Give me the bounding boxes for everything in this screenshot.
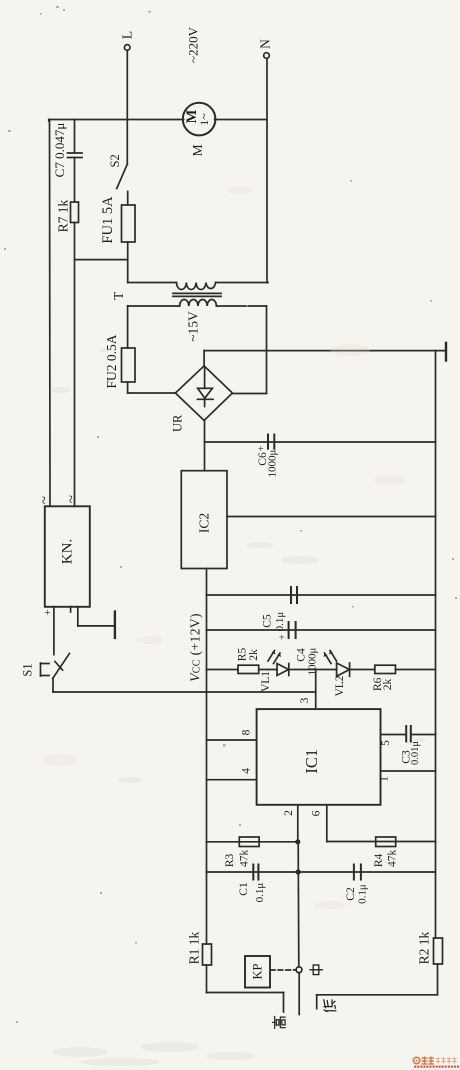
resistor R4	[376, 837, 396, 847]
svg-text:~: ~	[37, 496, 53, 504]
wire VL2 to R6	[350, 669, 375, 671]
motor M1	[183, 103, 216, 136]
capacitor C3 labels	[401, 741, 421, 765]
svg-text:FU2 0.5A: FU2 0.5A	[104, 334, 119, 388]
wire C6 line	[205, 441, 436, 443]
svg-text:47k: 47k	[387, 850, 399, 868]
svg-text:R4: R4	[373, 853, 385, 867]
fuse FU1	[122, 205, 136, 242]
wire pin3 vertical	[315, 670, 317, 710]
svg-text:+: +	[44, 607, 50, 619]
svg-text:KP: KP	[251, 963, 265, 979]
wire S1 to pin3	[53, 691, 316, 693]
wire C1 C2 line	[207, 871, 436, 873]
resistor R7	[71, 202, 79, 223]
capacitor C4	[289, 622, 296, 638]
label middle	[310, 965, 322, 975]
wire node P horizontal	[75, 259, 128, 261]
transformer T core	[173, 293, 221, 296]
svg-text:C2: C2	[345, 887, 357, 901]
wire FU1 to primary	[127, 242, 129, 283]
svg-text:~15V: ~15V	[186, 311, 201, 342]
wiper terminal circle	[296, 967, 302, 973]
capacitor C2	[354, 865, 361, 880]
svg-text:L: L	[120, 31, 135, 39]
wire R6 to rail	[396, 669, 436, 671]
LED VL2	[324, 651, 350, 677]
svg-text:IC1: IC1	[302, 749, 321, 774]
svg-text:M: M	[190, 144, 205, 156]
svg-text:FU1 5A: FU1 5A	[100, 196, 116, 244]
wire secondary left	[127, 306, 129, 348]
capacitor C7	[68, 120, 83, 203]
svg-text:1000μ: 1000μ	[267, 449, 279, 477]
svg-text:+: +	[278, 634, 289, 640]
wire C4 line	[207, 629, 436, 631]
wire LED line	[207, 669, 239, 671]
svg-text:C5: C5	[262, 614, 274, 628]
svg-text:2: 2	[283, 810, 295, 816]
svg-text:2k: 2k	[248, 649, 260, 661]
svg-text:0.1μ: 0.1μ	[274, 612, 286, 632]
capacitor C1	[253, 865, 258, 880]
wire VL1 to junction	[289, 669, 337, 671]
wire C5 line	[207, 594, 436, 596]
wire ground rail	[435, 351, 437, 938]
capacitor C5 labels	[262, 612, 287, 632]
svg-text:R5: R5	[236, 648, 248, 662]
svg-text:VL2: VL2	[334, 675, 346, 696]
svg-text:C1: C1	[238, 882, 250, 896]
svg-text:5: 5	[380, 740, 392, 746]
ground	[114, 612, 116, 638]
svg-text:S2: S2	[108, 154, 122, 167]
svg-text:47k: 47k	[238, 850, 250, 868]
label low	[324, 1000, 336, 1012]
svg-text:C7 0.047μ: C7 0.047μ	[52, 123, 67, 178]
svg-text:2k: 2k	[382, 679, 394, 691]
wire R7 to KN	[74, 223, 76, 507]
svg-text:3: 3	[299, 697, 311, 703]
wire R1 to high contact	[207, 965, 284, 1012]
pin 1	[379, 771, 436, 782]
wire R4 line	[327, 841, 436, 843]
resistor R4 labels	[373, 850, 399, 868]
svg-text:0.01μ: 0.01μ	[410, 741, 421, 765]
wire secondary right to bridge	[232, 306, 266, 394]
KN minus label	[70, 607, 72, 613]
terminal L	[124, 45, 130, 165]
svg-text:VCC (+12V): VCC (+12V)	[187, 613, 202, 682]
wire main line right	[215, 119, 267, 121]
capacitor C5	[291, 587, 297, 603]
wire FU2 to bridge	[128, 382, 176, 393]
watermark logo	[413, 1057, 459, 1068]
wire R5 to VL1	[259, 669, 277, 671]
resistor R2	[434, 938, 443, 964]
junction C1 node	[296, 869, 301, 874]
dashed link KP to wiper	[271, 969, 296, 971]
transformer T secondary	[128, 300, 267, 307]
ground bar terminal	[445, 343, 447, 361]
pin 8	[207, 729, 257, 740]
svg-text:1~: 1~	[197, 113, 211, 126]
resistor R5	[238, 665, 259, 673]
pin 4	[207, 768, 257, 780]
resistor R3	[239, 837, 259, 847]
capacitor C4 labels	[278, 634, 319, 675]
wire bridge bottom to IC2	[204, 421, 206, 471]
switch S1	[41, 653, 70, 692]
wire left rail	[48, 120, 50, 122]
pin 6	[311, 805, 327, 842]
wiper arm	[298, 973, 300, 1015]
svg-text:VL1: VL1	[260, 671, 272, 692]
resistor R6	[375, 665, 396, 673]
svg-text:0.1μ: 0.1μ	[254, 883, 266, 903]
contact low	[317, 964, 438, 1009]
timer IC1	[257, 709, 381, 805]
resistor R1	[203, 944, 212, 965]
transformer T primary	[128, 283, 268, 290]
wire pin2 to wiper	[297, 842, 300, 967]
wire main line left	[49, 119, 184, 121]
svg-text:UR: UR	[170, 414, 184, 432]
wire R3 line	[207, 841, 298, 843]
fuse FU2	[122, 348, 136, 382]
resistor R5 labels	[236, 648, 259, 662]
svg-text:6: 6	[311, 810, 323, 816]
label high	[273, 1017, 285, 1029]
svg-text:S1: S1	[21, 663, 35, 676]
svg-text:4: 4	[240, 768, 252, 774]
svg-text:T: T	[111, 291, 126, 300]
resistor R6 labels	[372, 677, 394, 691]
pin 2	[283, 805, 298, 842]
svg-text:1: 1	[379, 776, 391, 782]
wire KN plus to S1	[53, 607, 55, 655]
svg-text:R7 1k: R7 1k	[56, 199, 71, 232]
svg-text:~220V: ~220V	[186, 26, 201, 63]
svg-text:1000μ: 1000μ	[307, 647, 319, 675]
svg-text:IC2: IC2	[197, 513, 212, 533]
junction pin2 node	[295, 839, 300, 844]
svg-text:8: 8	[240, 729, 252, 735]
capacitor C6 labels	[257, 445, 279, 477]
svg-text:R1 1k: R1 1k	[187, 931, 202, 964]
wire bridge top to ground bar	[204, 351, 446, 366]
LED VL1	[268, 651, 289, 676]
relay KN	[45, 506, 90, 607]
svg-text:0.1μ: 0.1μ	[357, 884, 369, 904]
terminal N	[264, 53, 270, 283]
svg-text:KN.: KN.	[60, 539, 76, 564]
switch S2	[117, 164, 128, 205]
wire KN minus to ground	[78, 607, 115, 626]
resistor R3 labels	[224, 850, 250, 868]
svg-text:R3: R3	[224, 853, 236, 867]
capacitor C2 labels	[345, 884, 369, 904]
sensor KP	[245, 956, 270, 988]
capacitor C1 labels	[238, 882, 266, 902]
pin 5 and capacitor C3	[380, 726, 436, 746]
capacitor C6	[268, 435, 274, 449]
svg-text:R2 1k: R2 1k	[417, 931, 432, 964]
svg-text:N: N	[258, 39, 273, 49]
bridge rectifier UR	[175, 366, 232, 421]
wire IC2 out (Vcc vertical)	[206, 569, 208, 945]
wire IC2 gnd	[227, 516, 436, 518]
regulator IC2	[181, 471, 227, 569]
svg-text:~: ~	[64, 495, 80, 503]
